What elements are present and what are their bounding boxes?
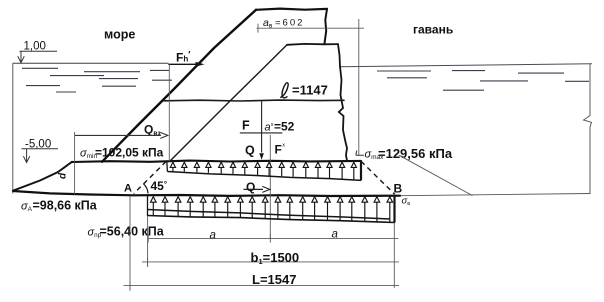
caisson base / berm top line [72,161,361,162]
sea water level line [13,62,169,64]
extension line x=169 [168,65,170,162]
lower pressure diagram envelope 2 [148,216,396,223]
svg-text:σв: σв [402,196,411,208]
svg-text:=129,56 кПа: =129,56 кПа [378,146,453,161]
crest plateau [256,9,327,10]
svg-text:а: а [265,122,271,134]
lower pressure diagram left edge [147,196,149,217]
lower pressure diagram right edge [393,196,395,223]
upper pressure diagram arrows [170,162,356,179]
force Qvz arrow [75,134,161,136]
lower pressure diagram arrows [151,197,393,222]
outer slope [102,10,256,162]
svg-text:Fh′: Fh′ [176,50,190,65]
svg-text:B: B [394,182,403,196]
45deg dashed spread line at A [134,161,166,193]
sigma-max label with leader [356,151,364,156]
45deg angle arc and label [143,184,148,194]
old structure deck line [164,99,345,102]
force Fh' arrow [168,63,197,65]
length label l=1147 [280,83,288,98]
svg-text:F: F [242,119,250,133]
extension line x=358.8 [358,19,360,155]
inner slope [170,45,287,162]
svg-text:L=1547: L=1547 [252,272,296,287]
harbour water level line [340,64,592,67]
svg-text:F: F [275,143,282,157]
dimension line b1=1500 [142,261,399,263]
lower pressure diagram envelope 1 [148,210,391,220]
sea water dashes [22,68,172,92]
svg-text:а: а [332,229,338,241]
berm top slope [13,162,72,191]
svg-text:=52: =52 [274,120,295,134]
harbour right boundary with break [584,64,592,194]
extension line x=147.6 (b1 left) [147,216,149,267]
svg-text:=98,66 кПа: =98,66 кПа [33,199,98,213]
foundation bottom line [13,191,400,196]
svg-text:ав: ав [263,17,273,30]
force QF line with down arrow [261,101,263,153]
svg-text:d: d [58,172,69,179]
harbour bottom line [390,194,591,196]
extension line x=74.6 with d label [74,132,76,194]
45deg dashed spread line at B [361,161,395,194]
svg-text:Q: Q [245,144,255,158]
upper pressure diagram right edge [360,161,362,181]
harbour water dashes [377,71,589,91]
force Q horizontal arrow [244,188,264,190]
svg-text:=602: =602 [275,18,304,29]
svg-text:b1=1500: b1=1500 [251,250,300,266]
svg-text:A: A [124,183,132,195]
sea left boundary line [12,63,14,193]
svg-text:=102,05 кПа: =102,05 кПа [95,146,164,160]
dimension line L=1547 [124,284,400,286]
harbour side slope line [399,155,473,195]
extension line x=394.3 (right) [393,223,395,288]
upper pressure diagram bottom envelope [167,172,361,181]
upper pressure diagram left edge [166,161,169,172]
svg-text:гавань: гавань [413,23,453,37]
svg-text:σA: σA [21,201,33,214]
svg-text:Q: Q [246,180,255,194]
svg-text:Qвз: Qвз [144,122,161,137]
crest right edge [325,9,328,44]
inner plateau step [287,43,338,46]
centre axis line [269,135,271,239]
svg-text:=1147: =1147 [292,83,328,98]
svg-text:x: x [282,143,285,149]
dimension line a+a [148,237,398,239]
svg-text:45°: 45° [151,179,168,193]
old wall right edge [338,44,347,161]
svg-text:море: море [104,28,135,42]
svg-text:=56,40 кПа: =56,40 кПа [100,225,165,239]
extension line x=130 (L left) [129,196,131,291]
svg-text:а: а [210,230,216,242]
